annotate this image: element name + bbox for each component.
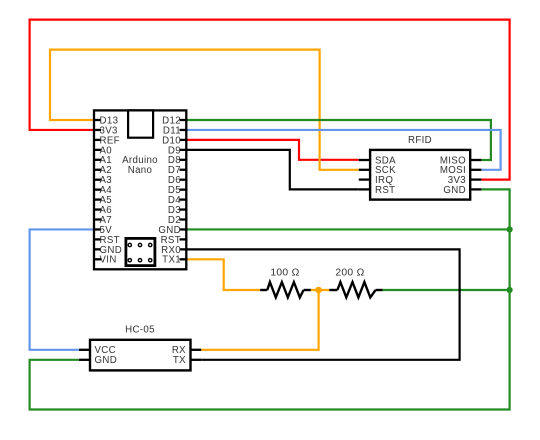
svg-text:GND: GND <box>95 355 118 366</box>
Arduino pins left ticks <box>93 120 101 259</box>
svg-text:100 Ω: 100 Ω <box>270 268 299 279</box>
Arduino pins right ticks <box>180 120 188 259</box>
svg-text:RST: RST <box>375 185 395 196</box>
wire green resistor R2 to green bus <box>383 289 510 291</box>
RFID pin labels <box>375 155 396 195</box>
RFID pin stubs left <box>359 160 371 189</box>
HC-05 pin stubs <box>79 350 201 360</box>
svg-text:HC-05: HC-05 <box>125 325 155 336</box>
wire orange D13 to RFID SCK <box>50 50 359 170</box>
svg-text:200 Ω: 200 Ω <box>335 268 364 279</box>
ICSP header <box>126 238 155 265</box>
HC-05 pin labels <box>95 345 118 366</box>
svg-text:TX: TX <box>173 355 186 366</box>
HC-05 module U3 body <box>90 340 191 371</box>
wire red D10 to RFID SDA <box>186 140 358 160</box>
wire orange TX1 to resistor R1 <box>186 259 260 290</box>
Arduino pin labels left <box>100 115 123 265</box>
resistor R1 100 ohm <box>260 282 311 297</box>
svg-text:RFID: RFID <box>408 135 432 146</box>
wire blue 5V to HC-05 VCC <box>30 229 94 349</box>
wire orange junction to HC-05 RX <box>201 290 318 350</box>
wire blue D11 to RFID MOSI <box>186 130 500 170</box>
RFID module U2 body <box>370 150 470 200</box>
Arduino pin labels right <box>158 115 181 265</box>
junction node orange <box>315 287 322 294</box>
wire black RX0 to HC-05 TX <box>186 249 459 359</box>
svg-text:Nano: Nano <box>128 165 153 176</box>
wire green Arduino GND right to green bus <box>186 228 509 230</box>
RFID pin stubs right <box>470 160 482 189</box>
svg-text:VIN: VIN <box>100 255 117 266</box>
wire orange between resistors <box>311 289 330 291</box>
junction node green upper <box>507 226 513 232</box>
svg-text:TX1: TX1 <box>162 255 181 266</box>
resistor R2 200 ohm <box>329 282 382 297</box>
IC U1 Arduino Nano body <box>94 110 186 269</box>
wire green D12 to RFID MISO <box>186 120 491 160</box>
wire black D9 to RFID RST <box>186 150 358 190</box>
wire red 3V3 Arduino to RFID 3V3 <box>30 20 510 180</box>
wire green RFID GND around page to HC-05 GND <box>30 189 510 409</box>
USB notch <box>128 110 153 137</box>
svg-text:GND: GND <box>443 185 466 196</box>
junction node green lower <box>507 287 513 293</box>
